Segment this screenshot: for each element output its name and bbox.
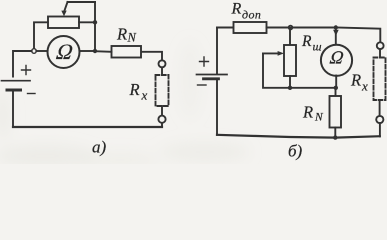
svg-text:R: R: [116, 25, 127, 44]
node: junction B below meter: [334, 86, 338, 90]
battery b: long positive plate: [197, 74, 228, 76]
svg-text:ш: ш: [313, 40, 322, 54]
wire: top wire of rheostat tap: [68, 1, 96, 3]
wire: rheostat right lead: [79, 21, 95, 23]
wire: top-left to Rdop: [217, 27, 234, 29]
wire: terminal to Rx rect: [161, 106, 163, 116]
wire: bottom terminal to bottom wire: [379, 123, 381, 136]
node: junction above meter: [334, 25, 338, 29]
svg-text:x: x: [141, 88, 148, 103]
wire: RN to bottom wire: [334, 128, 336, 138]
battery a: short negative plate: [7, 89, 21, 92]
wire: RN left lead: [95, 50, 112, 53]
terminal: open circle above Rx (a): [159, 60, 166, 67]
wire: meter top lead: [335, 28, 337, 46]
wire: left vertical to battery: [216, 28, 218, 74]
svg-text:N: N: [127, 31, 137, 45]
svg-text:R: R: [350, 71, 361, 90]
wire: junction1 to junction2: [291, 27, 336, 29]
wire: wiper return (left, down, right): [263, 53, 290, 87]
wire: Rx rect to bottom terminal: [379, 100, 381, 116]
terminal: open circle top of Rx (b): [377, 42, 384, 49]
wire: terminal to Rx rect: [379, 49, 381, 57]
wire: vertical link right of rheostat: [94, 2, 96, 51]
minus sign: [198, 84, 207, 86]
svg-text:R: R: [231, 1, 242, 18]
resistor RN circuit a: [112, 46, 142, 58]
resistor Rx (b, dashed outline): [374, 58, 386, 101]
resistor RN circuit b: [330, 96, 342, 128]
resistor Rx (a, dashed outline): [156, 75, 169, 106]
resistor Rsh: [284, 45, 296, 76]
resistor R (rheostat) circuit a: [48, 17, 79, 29]
node: junction A below Rsh: [288, 86, 292, 90]
battery b: short negative plate: [204, 77, 219, 80]
wire: meter left lead: [36, 50, 48, 52]
wire: Rsh top lead: [289, 28, 291, 46]
wire: Rdop to junction 1: [267, 27, 291, 29]
wire: junction B to RN: [335, 88, 337, 96]
terminal: open circle bottom of Rx (b): [376, 116, 383, 123]
meter (ohmmeter) circle circuit b: [321, 45, 352, 76]
svg-text:R: R: [129, 80, 140, 99]
svg-text:а): а): [92, 138, 107, 157]
terminal: open circle below Rx (a): [158, 116, 165, 123]
wire: junction A to junction B: [290, 87, 336, 89]
rheostat wiper arrowhead: [61, 11, 66, 17]
node: junction above Rsh: [289, 26, 293, 30]
rheostat wiper arrow of Rsh: [263, 52, 278, 54]
plus sign: [22, 66, 31, 75]
node: junction at rheostat right lead: [93, 20, 97, 24]
minus sign: [28, 93, 36, 95]
op-amp? no: meter (ohmmeter) circle circuit a: [48, 36, 80, 68]
arrowhead on meter top lead: [333, 30, 339, 36]
battery a: long positive plate: [2, 80, 31, 82]
wire: Rx to top terminal: [161, 67, 163, 75]
plus sign: [200, 57, 209, 66]
wire: bottom wire up to Rx bottom terminal: [161, 123, 163, 127]
svg-text:R: R: [302, 103, 313, 122]
node: junction on bottom wire: [333, 135, 337, 139]
wire: rheostat left lead: [34, 22, 48, 48]
wire: Rsh bottom lead: [289, 76, 291, 88]
svg-text:б): б): [288, 142, 303, 161]
wire: bottom wire circuit b: [217, 135, 380, 138]
node: junction right of meter: [93, 49, 97, 53]
wire: wiper drop from top wire: [64, 2, 67, 11]
wire: battery to bottom wire: [216, 80, 218, 135]
svg-text:x: x: [361, 79, 368, 94]
wire: battery to bottom wire: [12, 90, 14, 127]
node: open terminal left of meter: [32, 49, 37, 54]
wire: junction2 to top right corner and down: [336, 28, 381, 43]
wire: bottom wire circuit a: [13, 126, 162, 128]
svg-text:R: R: [301, 33, 312, 50]
wire: meter right lead: [79, 50, 93, 52]
wire: top terminal up and left to RN: [141, 52, 162, 61]
wire: node to battery top: [13, 51, 32, 77]
svg-text:доп: доп: [242, 8, 261, 22]
svg-text:N: N: [314, 112, 324, 124]
resistor Rdop: [234, 22, 267, 33]
wire: meter bottom lead: [335, 76, 337, 88]
